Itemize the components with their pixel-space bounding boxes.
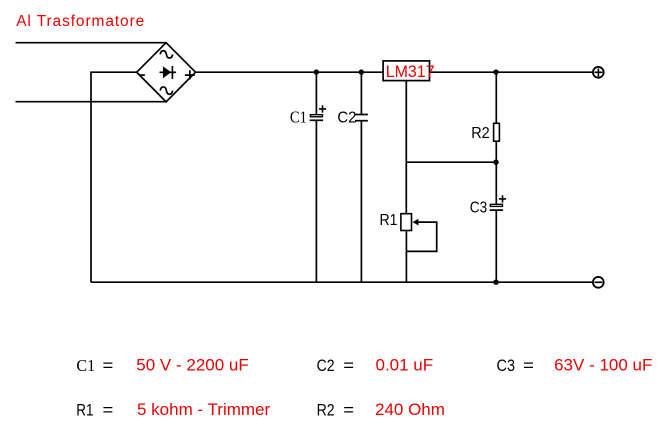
svg-text:C2: C2 xyxy=(337,109,356,126)
resistor R2 xyxy=(494,123,500,141)
wire: C1 upper lead xyxy=(315,72,317,114)
svg-text:Al Trasformatore: Al Trasformatore xyxy=(16,13,145,30)
svg-text:0.01 uF: 0.01 uF xyxy=(376,356,434,375)
svg-text:C1: C1 xyxy=(290,107,307,126)
wire: top rail bridge to LM317 xyxy=(195,71,382,73)
trimmer R1 box xyxy=(401,214,412,231)
wire: C3 lower lead xyxy=(495,210,497,282)
node dot C2/top rail xyxy=(359,69,364,74)
svg-text:50 V - 2200 uF: 50 V - 2200 uF xyxy=(136,356,248,375)
wire: top rail LM317 to + terminal xyxy=(430,71,592,73)
svg-text:=: = xyxy=(103,356,114,375)
node dot C1/top rail xyxy=(314,69,319,74)
bridge minus mark xyxy=(140,74,145,76)
wire: ADJ node to R2 bottom xyxy=(406,161,496,163)
svg-text:R1: R1 xyxy=(380,212,398,229)
wire: top transformer lead xyxy=(16,42,167,44)
node dot C3/bottom rail xyxy=(493,280,498,285)
node dot R2/top rail xyxy=(493,69,498,74)
wire: C2 lower lead xyxy=(360,121,362,283)
wire: C2 upper lead xyxy=(360,72,362,114)
wire: C1 lower lead xyxy=(315,120,317,282)
diode inside bridge xyxy=(160,66,177,79)
R1 wiper arrow xyxy=(413,219,419,226)
bridge plus mark xyxy=(185,70,195,79)
svg-text:LM317: LM317 xyxy=(386,63,435,81)
regulator U1 LM317 box xyxy=(383,61,429,81)
terminal - output xyxy=(593,277,604,288)
C3 polarity plus xyxy=(499,195,506,202)
svg-text:R1: R1 xyxy=(76,400,93,419)
wire: R2 lower lead xyxy=(495,142,497,162)
capacitor C1 electrolytic top plate xyxy=(310,115,323,121)
capacitor C3 electrolytic top plate xyxy=(490,204,503,210)
wire: wiper loop xyxy=(406,222,436,251)
wire: bottom transformer lead xyxy=(16,101,167,103)
svg-text:C1: C1 xyxy=(76,356,95,375)
wire: R1 lower lead xyxy=(405,231,407,282)
wire: bottom rail xyxy=(91,281,592,283)
svg-text:=: = xyxy=(523,356,534,375)
svg-text:240 Ohm: 240 Ohm xyxy=(375,400,445,419)
svg-text:C3: C3 xyxy=(470,199,488,216)
svg-text:R2: R2 xyxy=(471,125,490,142)
bridge rectifier diamond xyxy=(137,43,196,102)
AC squiggle top xyxy=(160,51,172,58)
svg-text:C2: C2 xyxy=(317,356,335,375)
svg-text:=: = xyxy=(343,356,354,375)
svg-text:C3: C3 xyxy=(497,356,516,375)
AC squiggle bottom xyxy=(160,87,172,94)
C1 polarity plus xyxy=(319,105,326,112)
wire: bridge minus lead down to bottom rail xyxy=(91,72,137,282)
node dot R2 bottom ADJ xyxy=(493,160,498,165)
wire: LM317 ADJ lead down to R1 xyxy=(405,81,407,213)
wire: R2 upper lead xyxy=(495,72,497,123)
terminal + output xyxy=(593,67,604,78)
svg-text:R2: R2 xyxy=(317,400,335,419)
svg-text:=: = xyxy=(103,400,114,419)
wire: C3 upper lead xyxy=(495,162,497,204)
capacitor C2 plates xyxy=(355,115,368,121)
svg-text:=: = xyxy=(343,400,354,419)
svg-text:5 kohm - Trimmer: 5 kohm - Trimmer xyxy=(137,400,271,419)
svg-text:63V - 100 uF: 63V - 100 uF xyxy=(554,356,652,375)
